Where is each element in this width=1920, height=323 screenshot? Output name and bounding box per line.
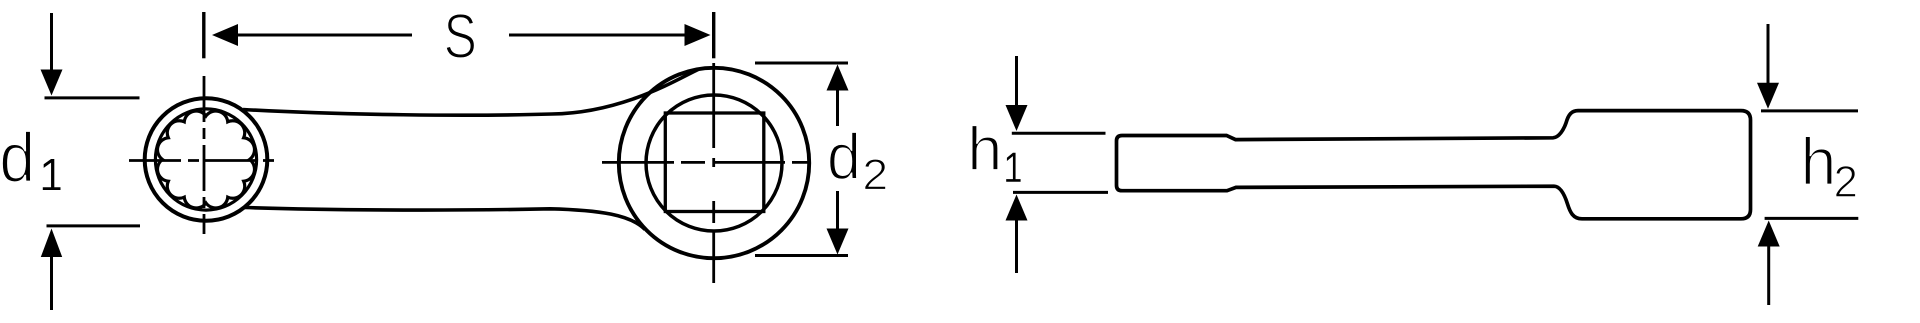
left view: box-end adapter (top view) [129,63,811,283]
d2 bottom extension line [755,254,848,257]
d2 top arrow line [836,90,839,126]
h2 top arrow line [1767,24,1770,83]
label h1 letter h [972,125,998,170]
d2 dimension [755,63,849,256]
small ring horizontal centerline [129,159,280,162]
h2 bottom extension line [1765,217,1859,220]
tool side profile [1117,111,1751,219]
handle top edge [243,70,698,116]
h2 bottom arrow line [1767,246,1770,305]
label h1 subscript 1 [1006,153,1020,182]
d2 top arrowhead [827,65,849,91]
S left arrowhead [212,24,238,46]
side view outline [1117,111,1751,219]
h1 bottom arrow line [1015,220,1018,273]
h1 bottom extension line [1013,191,1108,194]
S left dim line [236,34,412,37]
d1 top arrow line [50,13,53,70]
h1 top extension line [1012,132,1106,135]
label d1 subscript 1 [43,159,61,190]
d1 bottom extension line [47,224,141,227]
h1 top arrow line [1015,56,1018,105]
h1 dimension [1006,56,1109,273]
big ring outer circle [619,68,809,258]
S right tick [712,12,715,58]
small ring vertical centerline [203,76,206,234]
big ring vertical centerline [712,63,715,283]
label d2 subscript 2 [865,159,886,189]
d1 bottom arrow line [50,256,53,310]
h1 bottom arrowhead [1006,195,1028,221]
d2 bottom arrowhead [827,229,849,255]
12-point profile [157,111,254,208]
d1 top arrowhead [41,70,63,96]
S left tick [202,12,205,58]
ring outer circle [145,98,268,221]
label d2 letter d [829,132,857,179]
label d1 letter d [2,131,31,182]
d2 top extension line [755,62,848,65]
h2 top extension line [1761,109,1858,112]
S right arrowhead [685,24,711,46]
S right dim line [509,34,686,37]
label S [446,14,474,59]
d1 bottom arrowhead [41,229,62,258]
d1 dimension [41,13,141,310]
S dimension [204,12,714,58]
label h2 letter h [1805,136,1832,184]
square drive hole [665,113,764,212]
ring inner circle [155,109,256,210]
big ring horizontal centerline [602,161,811,164]
handle bottom edge [245,208,645,230]
h2 top arrowhead [1757,83,1779,109]
d2 bottom arrow line [836,191,839,249]
label h2 subscript 2 [1836,166,1856,197]
h2 dimension [1757,24,1858,305]
d1 top extension line [45,96,140,99]
h2 bottom arrowhead [1758,221,1780,247]
big ring inner circle [646,95,782,231]
h1 top arrowhead [1006,105,1028,131]
